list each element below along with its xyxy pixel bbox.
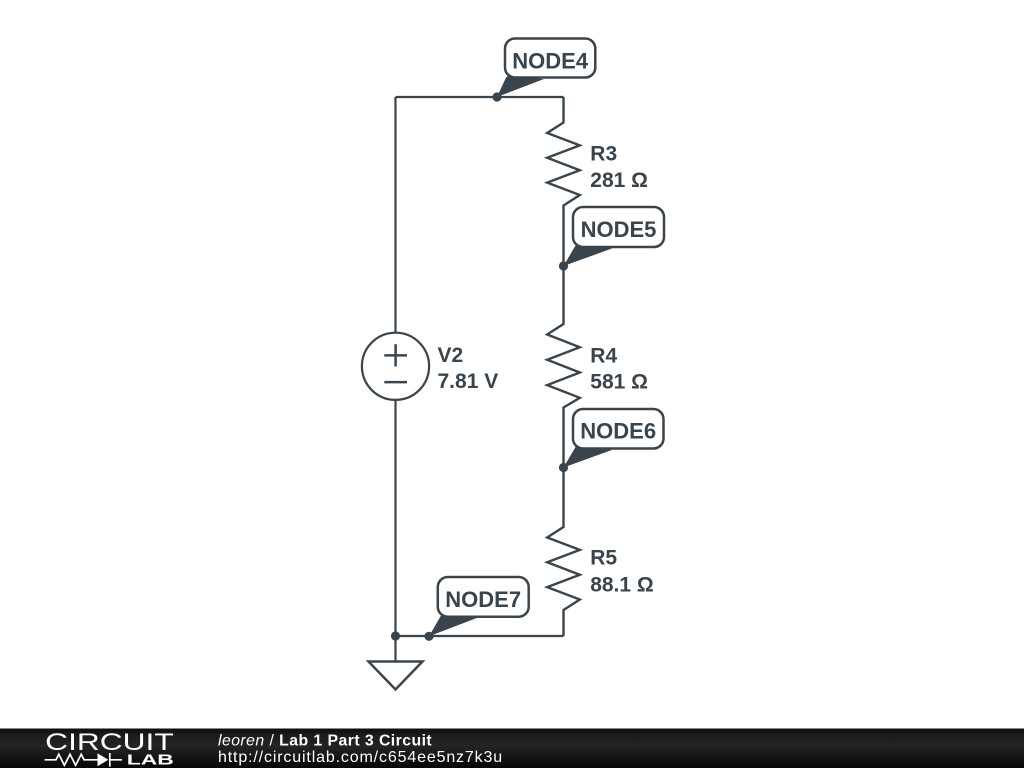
svg-text:7.81 V: 7.81 V bbox=[438, 370, 499, 393]
svg-text:NODE6: NODE6 bbox=[580, 419, 656, 444]
ground symbol triangle bbox=[369, 662, 423, 690]
wire: bottom horizontal (NODE7 net) bbox=[396, 635, 564, 637]
svg-text:NODE7: NODE7 bbox=[445, 587, 521, 612]
junction dot NODE6 bbox=[559, 463, 568, 472]
R3 value label 281 ohm bbox=[590, 169, 648, 192]
NODE5 label box bbox=[573, 207, 664, 247]
wire: left vertical upper (top wire to V2 + terminal) bbox=[394, 97, 396, 334]
resistor R3 (zigzag + stubs) bbox=[547, 97, 580, 266]
svg-text:NODE5: NODE5 bbox=[581, 217, 657, 242]
R3 name label bbox=[590, 143, 617, 166]
footer bar background bbox=[0, 729, 1024, 768]
R4 value label 581 ohm bbox=[590, 370, 648, 393]
V2 name label bbox=[438, 344, 464, 367]
svg-text:LAB: LAB bbox=[127, 753, 174, 768]
svg-text:R3: R3 bbox=[590, 143, 617, 166]
wire: top horizontal (NODE4 net) bbox=[396, 96, 564, 98]
ground stub wire bbox=[394, 636, 396, 662]
NODE4 label box bbox=[505, 39, 595, 78]
wire: left vertical lower (V2 - terminal to bottom wire) bbox=[394, 400, 396, 637]
NODE6 flag tail bbox=[564, 447, 613, 468]
NODE5 flag tail bbox=[564, 246, 613, 267]
footer title: leoren / Lab 1 Part 3 Circuit bbox=[218, 732, 432, 749]
CircuitLab logo word LAB bbox=[127, 753, 174, 768]
NODE7 flag tail bbox=[429, 616, 477, 637]
R4 name label bbox=[590, 344, 617, 367]
svg-text:R5: R5 bbox=[590, 547, 617, 570]
V2 plus sign bbox=[384, 344, 407, 366]
R5 value label 88.1 ohm bbox=[590, 573, 654, 596]
svg-text:281 Ω: 281 Ω bbox=[590, 169, 648, 192]
NODE4 flag tail bbox=[497, 77, 544, 98]
NODE7 label box bbox=[438, 577, 529, 617]
NODE6 label box bbox=[573, 409, 664, 449]
svg-text:NODE4: NODE4 bbox=[512, 48, 589, 73]
svg-text:V2: V2 bbox=[438, 344, 464, 367]
junction dot NODE4 on top wire bbox=[492, 92, 501, 101]
svg-text:88.1 Ω: 88.1 Ω bbox=[590, 573, 654, 596]
R5 name label bbox=[590, 547, 617, 570]
junction dot NODE5 bbox=[559, 261, 568, 270]
svg-text:leoren / Lab 1 Part 3 Circuit: leoren / Lab 1 Part 3 Circuit bbox=[218, 732, 432, 749]
resistor R4 (zigzag + stubs) bbox=[547, 266, 580, 468]
V2 value label 7.81 V bbox=[438, 370, 499, 393]
logo resistor-diode glyph bbox=[45, 753, 122, 767]
voltage source V2 circle bbox=[362, 333, 429, 400]
svg-text:http://circuitlab.com/c654ee5n: http://circuitlab.com/c654ee5nz7k3u bbox=[218, 749, 503, 766]
svg-text:R4: R4 bbox=[590, 344, 617, 367]
junction dot on bottom wire at ground bbox=[391, 631, 400, 640]
V2 minus sign bbox=[384, 381, 407, 384]
footer url bbox=[218, 749, 503, 766]
svg-text:581 Ω: 581 Ω bbox=[590, 370, 648, 393]
CircuitLab logo word CIRCUIT bbox=[45, 729, 174, 756]
resistor R5 (zigzag + stubs) bbox=[547, 468, 580, 637]
junction dot NODE7 bbox=[424, 632, 433, 641]
